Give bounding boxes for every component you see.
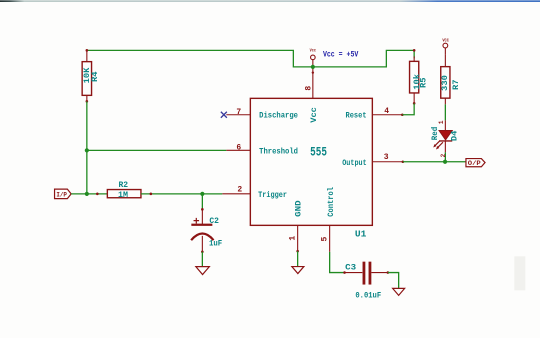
svg-text:Output: Output [342, 158, 366, 168]
wire I/P to R2 [71, 193, 107, 195]
capacitor C2 bottom pin [201, 236, 203, 252]
pin-end dot R2 right [150, 193, 153, 196]
junction trigger/C2 [200, 192, 204, 196]
capacitor C3 left plate [363, 262, 366, 285]
resistor R7 top pin stub [444, 54, 446, 66]
R4 bottom pin stub [86, 95, 88, 102]
junction trigger/left column [85, 192, 89, 196]
resistor R2 body [107, 190, 141, 198]
pin-end dot R5 bottom [413, 102, 416, 105]
svg-text:555: 555 [310, 146, 327, 160]
svg-text:GND: GND [294, 200, 304, 216]
ground below C2 [196, 267, 210, 275]
LED D4 cathode pin [444, 141, 446, 152]
pin 1 GND stub [297, 225, 299, 251]
R7 bottom pin stub [444, 98, 446, 104]
svg-text:Vcc: Vcc [309, 107, 319, 123]
svg-text:2: 2 [237, 186, 242, 195]
svg-text:8: 8 [304, 86, 313, 91]
svg-text:Reset: Reset [346, 111, 367, 121]
pin 8 end tick [312, 71, 314, 73]
C3 left pin [345, 272, 363, 274]
wire C3 to ground [388, 273, 399, 289]
resistor R4 body [82, 62, 91, 96]
input flag I/P [55, 189, 72, 199]
svg-text:6: 6 [236, 144, 241, 153]
wire output net [403, 161, 466, 163]
junction Vcc node [311, 65, 315, 69]
resistor R7 body [441, 67, 450, 99]
capacitor C3 right plate [369, 262, 372, 285]
svg-text:5: 5 [320, 237, 329, 242]
output flag O/P [466, 159, 485, 167]
C3 right pin [371, 272, 388, 274]
pin 4 Reset stub [372, 114, 402, 116]
svg-text:0.01uF: 0.01uF [355, 291, 381, 301]
svg-text:R5: R5 [419, 77, 429, 88]
pin-end dot pin3 [402, 160, 405, 163]
wire threshold net [87, 149, 227, 151]
pin-end dot R5 top [413, 49, 416, 52]
pin-end dot pin1 [296, 250, 299, 253]
wire R5 to pin4 [402, 103, 414, 114]
svg-text:Control: Control [326, 187, 336, 217]
svg-text:C2: C2 [209, 216, 219, 226]
pin-end dot R2 left [96, 193, 99, 196]
svg-text:1M: 1M [118, 190, 128, 200]
wire pin5 to C3 [330, 252, 345, 273]
junction output/LED [443, 160, 447, 164]
svg-text:C3: C3 [345, 262, 356, 272]
wire left vertical R4 to trigger row [86, 101, 88, 194]
capacitor C2 curved plate [191, 234, 213, 241]
pin-end dot C2 top [201, 208, 204, 211]
capacitor C2 top plate [191, 224, 212, 226]
svg-text:Vcc: Vcc [310, 48, 317, 54]
pin 6 stub [226, 149, 250, 151]
pin 2 stub [222, 193, 250, 195]
wire pin1 to ground [297, 251, 299, 266]
svg-text:R4: R4 [90, 71, 100, 82]
svg-text:Vcc = +5V: Vcc = +5V [323, 50, 359, 60]
svg-text:R7: R7 [451, 79, 461, 90]
svg-text:7: 7 [236, 108, 241, 117]
pin 8 Vcc stub [312, 67, 314, 99]
LED D4 anode pin [444, 120, 446, 130]
pin-end dot C3 right [387, 271, 390, 274]
faint scan artifact [514, 256, 525, 290]
pin-end dot R4 top [86, 49, 89, 52]
svg-text:R2: R2 [118, 180, 128, 190]
ground right of C3 [393, 288, 405, 295]
svg-text:4: 4 [384, 107, 389, 116]
svg-text:3: 3 [384, 153, 389, 162]
svg-text:Red: Red [430, 127, 440, 141]
wire LED to output row [444, 152, 446, 161]
resistor R5 top pin stub [413, 56, 415, 61]
window top edge line [0, 0, 540, 2]
junction threshold/left [85, 148, 89, 152]
LED emission arrows [435, 141, 443, 148]
pin-end dot pin4 [401, 113, 404, 116]
pin 7 Discharge stub [226, 114, 250, 116]
svg-text:+: + [193, 216, 200, 228]
svg-text:I/P: I/P [56, 192, 67, 200]
resistor R4 top pin stub [86, 50, 88, 62]
svg-text:2: 2 [440, 153, 447, 157]
R5 bottom pin stub [413, 93, 415, 103]
pin 5 Control stub [329, 225, 331, 252]
wire R2 to pin2 [141, 193, 222, 195]
pin-end dot C2 bottom [201, 250, 204, 253]
wire R7 to LED [444, 104, 446, 120]
IC U1 555 body [250, 98, 372, 225]
wire C2 branch down [201, 194, 203, 210]
svg-text:Trigger: Trigger [258, 190, 287, 200]
svg-text:Threshold: Threshold [259, 147, 298, 157]
wire top net from R4 top to corner [87, 50, 414, 67]
LED D4 cathode bar [439, 140, 452, 142]
svg-text:D4: D4 [450, 131, 460, 142]
pin-end dot R4 bottom [86, 100, 89, 103]
LED D4 triangle [439, 130, 452, 139]
svg-text:1: 1 [438, 120, 445, 124]
resistor R5 body [410, 61, 419, 93]
capacitor C2 top pin [201, 209, 203, 224]
pin 3 Output stub [372, 161, 403, 163]
svg-text:O/P: O/P [468, 160, 481, 168]
ground below pin 1 [292, 267, 304, 274]
pin-end dot C3 left [343, 271, 346, 274]
no-connect X on pin 7 [221, 112, 227, 118]
wire C2 to ground [201, 252, 203, 267]
svg-text:Discharge: Discharge [259, 111, 298, 121]
svg-text:U1: U1 [355, 229, 367, 240]
svg-text:330: 330 [440, 75, 450, 91]
svg-text:1: 1 [288, 236, 297, 241]
svg-text:1uF: 1uF [209, 238, 222, 248]
